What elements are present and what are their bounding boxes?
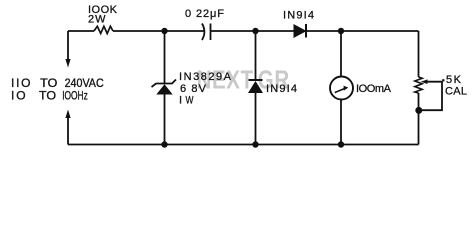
svg-text:5K: 5K xyxy=(446,74,462,86)
node junction bottom of zener xyxy=(161,141,167,147)
wire zener column lower xyxy=(164,95,166,145)
svg-text:IN3829A: IN3829A xyxy=(179,71,232,83)
svg-text:2W: 2W xyxy=(88,14,106,26)
svg-text:IOOmA: IOOmA xyxy=(356,83,392,95)
svg-text:IN9I4: IN9I4 xyxy=(283,10,314,22)
diode D2 1N914 vertical xyxy=(248,80,263,93)
wire right column upper xyxy=(418,31,420,77)
label dot before 5K xyxy=(442,79,444,81)
wire D2 column upper xyxy=(255,31,257,80)
input terminal lower with up arrow xyxy=(65,110,70,145)
svg-text:0 22μF: 0 22μF xyxy=(185,8,224,20)
wire right column lower xyxy=(418,93,420,145)
node junction bottom of D2 xyxy=(252,141,258,147)
svg-text:IN9I4: IN9I4 xyxy=(266,83,297,95)
wire capacitor to diode D1 xyxy=(211,30,295,32)
wire resistor to capacitor xyxy=(113,30,204,32)
svg-text:I: I xyxy=(179,95,182,107)
node junction top of zener xyxy=(161,28,167,34)
svg-text:6 8V: 6 8V xyxy=(180,83,207,95)
node junction top of meter xyxy=(338,28,344,34)
wire bottom rail xyxy=(68,144,419,146)
wire D2 column lower xyxy=(255,93,257,145)
potentiometer R2 body xyxy=(415,77,422,93)
node junction bottom of meter xyxy=(338,141,344,147)
input terminal upper with down arrow xyxy=(65,31,70,68)
node junction top of D2 xyxy=(252,28,258,34)
diode D1 1N914 xyxy=(294,24,306,38)
capacitor C1 curved plate xyxy=(202,24,204,41)
wire D1 to top-right corner xyxy=(306,30,419,32)
resistor R1 xyxy=(94,26,113,33)
svg-text:IO: IO xyxy=(11,89,26,103)
capacitor C1 straight plate xyxy=(210,24,212,41)
svg-text:IOOHz: IOOHz xyxy=(62,89,88,103)
meter M1 xyxy=(330,77,353,100)
potentiometer R2 wiper xyxy=(419,79,443,110)
wire top-left horizontal xyxy=(68,30,94,32)
svg-text:W: W xyxy=(186,95,194,107)
svg-text:CAL: CAL xyxy=(445,86,467,98)
wire meter column upper xyxy=(340,31,342,77)
node junction pot bottom xyxy=(415,107,422,114)
wire meter column lower xyxy=(340,100,342,145)
wire zener column upper xyxy=(164,31,166,84)
zener diode D3 1N3829A xyxy=(152,80,177,95)
svg-text:TO: TO xyxy=(39,89,56,103)
